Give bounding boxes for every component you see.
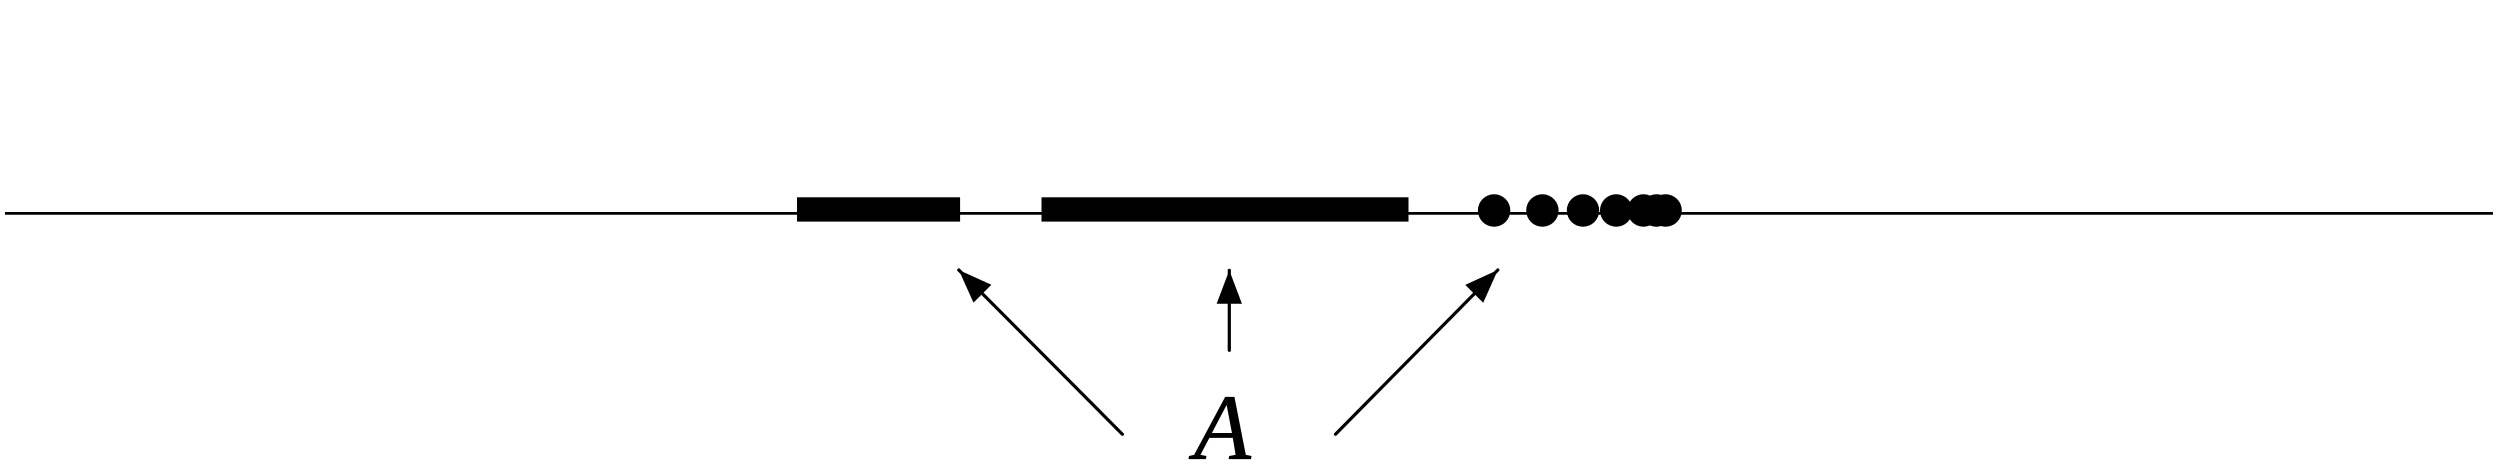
sequence dot 7	[1649, 194, 1681, 226]
sequence dot 2	[1526, 194, 1558, 226]
arrow to middle interval	[1217, 270, 1242, 350]
sequence dot 4	[1600, 194, 1632, 226]
interval bar 2 of set A	[1042, 197, 1409, 221]
number line	[5, 212, 2493, 215]
arrow to sequence of dots	[1336, 261, 1507, 434]
interval bar 1 of set A	[797, 197, 960, 221]
arrow to left interval	[950, 261, 1123, 434]
sequence dot 3	[1567, 194, 1599, 226]
sequence dot 5	[1627, 194, 1659, 226]
sequence dot 1	[1478, 194, 1510, 226]
svg-text:A: A	[1188, 377, 1252, 468]
sequence dot 6	[1640, 194, 1672, 226]
